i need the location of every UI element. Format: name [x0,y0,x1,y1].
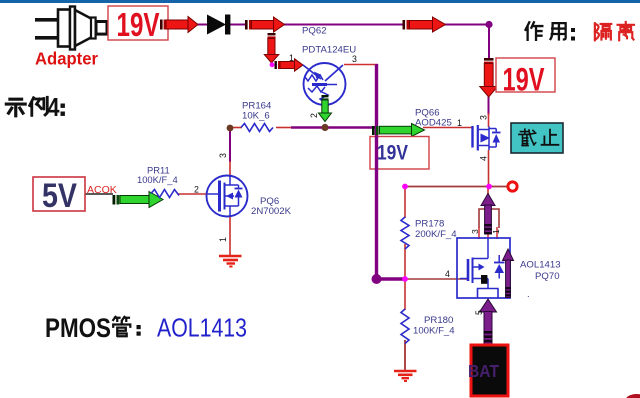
svg-text:2: 2 [194,185,199,195]
title example 4 [6,97,47,116]
current arrow down the 19V rail [480,58,498,97]
voltage box 19V gate node [370,136,429,170]
svg-text:2N7002K: 2N7002K [251,206,292,217]
transistor PQ6 2N7002K [207,176,248,217]
voltage box 5V [33,177,85,215]
node PQ62 emitter junction [321,124,328,131]
node output port circle [508,182,517,191]
resistor PR164 10K_6 [241,124,273,132]
svg-text:.: . [527,289,530,300]
svg-text:3: 3 [470,229,480,234]
ground PQ6 source [219,256,242,267]
current arrow inside PQ70 [503,249,514,298]
current arrow down to PQ62 base [264,33,279,63]
diode D1 [207,15,230,35]
svg-text:PQ62: PQ62 [302,26,327,37]
svg-text:5: 5 [474,310,484,315]
resistor PR180 100K/F_4 [401,309,409,344]
node dot top rail [485,21,492,28]
svg-text:3: 3 [352,54,357,64]
wire vertical purple bus x=376 [375,64,378,279]
wire purple bus elbow to node [375,277,406,280]
svg-text:100K/F_4: 100K/F_4 [137,174,178,185]
node PR178 top [402,184,408,190]
svg-text:AOL1413: AOL1413 [157,313,247,343]
svg-text:4: 4 [445,269,450,279]
svg-text:PR180: PR180 [424,315,453,326]
ground PR180 [394,371,417,381]
glyph li (example) [30,97,48,115]
mosfet PQ70 AOL1413 [457,238,510,298]
svg-text:1: 1 [491,229,501,234]
node output [486,184,492,190]
AC adapter plug icon [35,7,107,50]
wire 19V rail down to PQ66 drain [488,24,490,60]
svg-text:PMOS: PMOS [45,313,111,343]
current arrow into PQ62 base [275,59,304,71]
current arrow charge up [481,194,495,235]
svg-text:19V: 19V [117,6,160,43]
current arrow from adapter [160,17,198,33]
glyph jie (cut) [519,129,536,145]
wire PQ70 top pins to node [487,187,489,209]
wire PQ6 source to ground [229,216,231,256]
signal arrow gate drive to PQ66 [372,124,425,137]
wire output node row y=186.5 [405,186,508,188]
svg-text:AOD425: AOD425 [415,118,452,129]
svg-text:19V: 19V [503,62,545,98]
voltage box 19V adapter output [108,6,168,43]
svg-text:PR178: PR178 [415,219,444,230]
current arrow after diode [245,17,285,32]
glyph zhi (stop) [542,130,559,145]
node PR164/PQ6 junction [227,125,234,132]
svg-text:200K/F_4: 200K/F_4 [415,229,457,240]
svg-text:1: 1 [218,237,228,242]
svg-text:PQ70: PQ70 [535,271,560,282]
svg-text:4: 4 [479,156,489,161]
wire PQ62 collector to vertical purple bus [344,64,378,66]
svg-text:PDTA124EU: PDTA124EU [302,45,356,56]
voltage box 19V on rail [496,58,555,98]
svg-text:19V: 19V [377,142,408,165]
mosfet PQ66 AOD425 [473,125,501,151]
annotation box cutoff [511,123,563,153]
svg-text:AOL1413: AOL1413 [520,260,561,271]
svg-text:1: 1 [457,118,462,128]
wire gate row y=127.5 [230,127,242,129]
glyph guan (tube) [113,317,130,336]
current arrow into 19V rail [403,17,446,32]
svg-text:5V: 5V [42,177,77,215]
svg-text:100K/F_4: 100K/F_4 [413,326,455,337]
glyph li2 (leave) [618,22,634,40]
svg-text:3: 3 [479,115,489,120]
wire PQ6 drain up to PR164 node [229,129,231,162]
wire top rail [197,24,489,26]
svg-text:1: 1 [289,53,294,63]
resistor PR178 200K/F_4 [401,217,409,249]
glyph yong (use) [551,23,566,39]
glyph ge (isolate) [595,23,611,40]
node PQ62 base corner [270,62,275,67]
battery BAT [468,345,508,396]
wire gate row to PQ70 y=279 [406,278,467,280]
svg-text:10K_6: 10K_6 [242,111,270,122]
glyph zuo (function) [526,22,543,40]
glyph shi (show) [6,99,25,116]
corner logo blob [625,394,640,398]
svg-text:2: 2 [309,113,319,118]
current arrow from battery [480,299,497,345]
svg-text:ACOK: ACOK [87,184,117,196]
signal arrow ACOK [113,192,164,208]
heading function: isolation [526,22,566,40]
svg-text:3: 3 [218,153,228,158]
wire PQ6 gate from 5V [85,193,113,195]
svg-text:Adapter: Adapter [35,49,98,69]
wire PR178 branch x=405 [404,187,406,219]
wire PQ66 source down to node row [488,150,490,187]
signal arrow PQ62 emitter down [319,95,332,122]
transistor PQ62 PDTA124EU [303,63,346,105]
svg-text:BAT: BAT [468,361,499,381]
node purple bus corner [372,274,382,284]
wire PR180 branch [404,278,406,310]
node PR178/PR180 [402,276,408,282]
svg-text:4: 4 [48,92,60,122]
